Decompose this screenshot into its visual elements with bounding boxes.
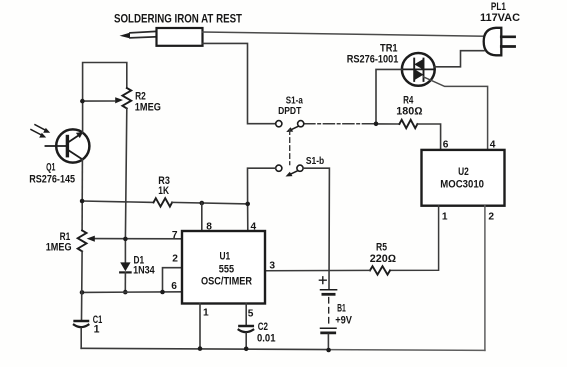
svg-text:C2: C2 <box>258 321 268 333</box>
resistor R1 <box>78 230 87 251</box>
svg-text:0.01: 0.01 <box>257 333 276 345</box>
resistor R3 <box>154 198 173 206</box>
opto-isolator U2 <box>422 150 505 206</box>
phototransistor Q1 <box>45 129 89 162</box>
wire pin 8 <box>201 203 203 231</box>
wire left rail R1 bottom to C1 <box>81 251 84 320</box>
wire U1 pin5 down to C2 <box>245 304 247 326</box>
svg-text:2: 2 <box>488 212 494 223</box>
wire R2 bottom down to pin7 line and D1 <box>125 108 126 262</box>
svg-text:R5: R5 <box>376 242 387 254</box>
svg-text:RS276-145: RS276-145 <box>29 174 75 186</box>
wire TR1 right terminal to plug <box>435 51 484 67</box>
svg-text:220Ω: 220Ω <box>370 253 396 265</box>
svg-text:4: 4 <box>251 221 257 232</box>
resistor R2 <box>122 88 131 108</box>
switch S1-a <box>276 121 376 132</box>
junction dot left rail / R3 <box>80 199 85 204</box>
junction dot battery rail <box>326 348 331 353</box>
svg-text:1MEG: 1MEG <box>135 102 161 114</box>
junction dot rail/pin6 <box>80 290 85 295</box>
junction dot pin1 rail <box>198 346 203 351</box>
diode D1 <box>120 262 130 292</box>
svg-text:2: 2 <box>172 254 178 265</box>
svg-text:RS276-1001: RS276-1001 <box>347 54 399 66</box>
wire Q1 emitter down left rail <box>81 159 83 230</box>
bottom rail right segment <box>329 349 485 352</box>
wire iron bottom down to S1-a <box>203 43 276 123</box>
svg-text:R4: R4 <box>403 94 413 106</box>
wire U1 pin2 loop <box>163 268 183 292</box>
IC U1 555 <box>182 231 265 304</box>
battery B1 <box>319 277 336 350</box>
svg-text:8: 8 <box>206 221 212 232</box>
svg-text:1: 1 <box>94 323 100 335</box>
svg-text:555: 555 <box>219 264 234 276</box>
svg-text:Q1: Q1 <box>46 162 55 174</box>
svg-text:SOLDERING IRON AT REST: SOLDERING IRON AT REST <box>114 12 243 26</box>
svg-text:4: 4 <box>490 140 496 151</box>
svg-text:6: 6 <box>443 140 449 151</box>
junction dot C2 rail <box>244 347 249 352</box>
junction dot wiper tap <box>80 99 85 104</box>
switch link dashed <box>289 130 291 165</box>
svg-text:B1: B1 <box>337 302 346 314</box>
wire S1-b left terminal down to U1 pin 4 <box>248 168 276 231</box>
svg-text:7: 7 <box>172 230 178 241</box>
svg-text:1K: 1K <box>158 185 169 197</box>
svg-text:3: 3 <box>269 261 275 272</box>
junction dot S1a/TR1/R4 <box>374 122 379 127</box>
junction dot D1 bottom <box>123 290 128 295</box>
wire R2 wiper tap <box>82 100 114 102</box>
svg-text:6: 6 <box>171 281 177 292</box>
capacitor C2 <box>239 326 254 349</box>
wire U2 pin1 to R5 <box>390 206 439 271</box>
wire Q1 collector up / top loop / R2 top <box>83 63 127 133</box>
svg-text:+9V: +9V <box>335 314 352 326</box>
plug PL1 <box>484 28 515 56</box>
svg-text:1: 1 <box>203 308 209 319</box>
wire S1-b right terminal to battery <box>303 168 329 289</box>
junction dot pin4 rail <box>245 202 250 207</box>
capacitor C1 <box>74 321 89 348</box>
triac TR1 <box>402 53 435 86</box>
junction dot R2/pin7 <box>123 237 128 242</box>
svg-text:180Ω: 180Ω <box>396 106 422 118</box>
wire R1 wiper to U1 pin 7 <box>95 238 183 240</box>
junction dot pin8 rail <box>200 201 205 206</box>
wire TR1 lower terminal to U2 pin 4 <box>424 77 488 150</box>
svg-text:5: 5 <box>248 308 254 319</box>
bottom rail <box>81 348 329 349</box>
switch S1-b <box>276 165 303 176</box>
junction dot pin2/pin6 <box>160 290 165 295</box>
svg-text:1: 1 <box>442 212 448 223</box>
wire U2 pin2 down to bottom rail <box>484 206 486 351</box>
resistor R4 <box>376 120 441 150</box>
wire left rail to U1 pin6 <box>82 291 182 294</box>
resistor R5 <box>265 266 390 274</box>
svg-text:S1-b: S1-b <box>306 156 324 167</box>
rail R3 line <box>82 201 154 202</box>
svg-text:DPDT: DPDT <box>278 106 302 117</box>
svg-text:U1: U1 <box>220 250 231 262</box>
svg-text:OSC/TIMER: OSC/TIMER <box>201 275 252 287</box>
soldering iron (pictorial) <box>120 28 203 46</box>
wire iron top to plug <box>203 32 485 36</box>
svg-text:MOC3010: MOC3010 <box>440 178 484 190</box>
wire U1 pin1 down <box>199 304 201 349</box>
wire TR1 gate down to junction <box>376 69 402 123</box>
svg-text:U2: U2 <box>458 166 469 178</box>
svg-text:117VAC: 117VAC <box>480 12 520 24</box>
light arrows <box>31 125 50 138</box>
svg-text:1MEG: 1MEG <box>46 241 72 253</box>
svg-text:1N34: 1N34 <box>133 264 155 276</box>
